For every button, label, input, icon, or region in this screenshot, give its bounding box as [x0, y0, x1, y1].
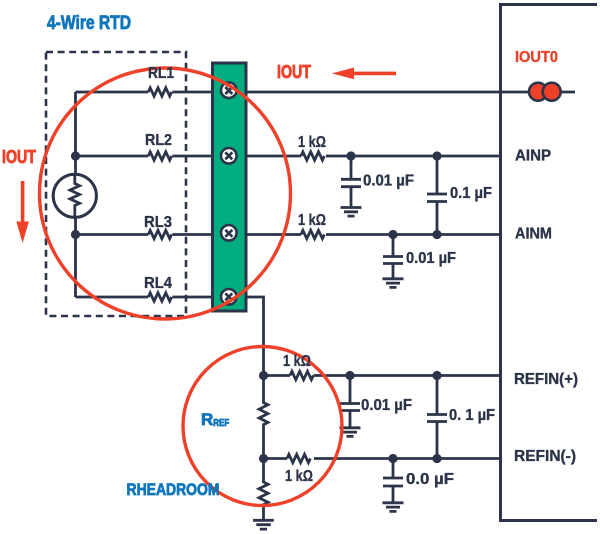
svg-text:RL4: RL4 [144, 275, 172, 292]
terminal block (green) [213, 63, 247, 311]
label RREF [201, 410, 230, 429]
svg-text:0.1 µF: 0.1 µF [450, 185, 492, 202]
node REFIN(-) left junction [259, 454, 268, 463]
label 0.0uF REFIN- [406, 471, 454, 488]
svg-text:0.01 µF: 0.01 µF [406, 250, 456, 267]
terminal 1 (screw) [221, 82, 237, 98]
svg-text:1 kΩ: 1 kΩ [283, 353, 311, 370]
label 1 kOhm row5 [283, 353, 311, 370]
label 1 kOhm row2 [298, 134, 326, 151]
node AINP cap junction [346, 151, 355, 160]
label RL3 [144, 214, 172, 231]
capacitor 0.1uF between AINP/AINM [427, 156, 447, 235]
capacitor 0.01uF on AINM [383, 235, 403, 279]
node AINM 0.1uF junction [432, 230, 441, 239]
node REFIN(-) cap junction [388, 454, 397, 463]
label RL2 [145, 132, 172, 149]
svg-text:0.01 µF: 0.01 µF [363, 173, 414, 190]
svg-text:IOUT: IOUT [277, 62, 311, 82]
label 1 kOhm row3 [298, 212, 326, 229]
resistor RL1 [148, 88, 171, 96]
ground below RHEADROOM [253, 520, 274, 529]
wire row3 AINM [76, 233, 501, 236]
4-wire RTD dashed boundary box [46, 52, 186, 316]
svg-text:0.0 µF: 0.0 µF [406, 471, 454, 488]
ground below REFIN(+) cap [340, 428, 361, 437]
svg-text:RL2: RL2 [145, 132, 172, 149]
svg-text:AINP: AINP [515, 148, 551, 165]
svg-text:0. 1 µF: 0. 1 µF [449, 407, 495, 424]
node RL2/RTD junction [71, 151, 80, 160]
wire left bus (RTD loop vertical) [74, 92, 77, 297]
node AINP 0.1uF junction [432, 151, 441, 160]
pin label REFIN(+) [514, 371, 578, 388]
wire row4 RL4 [76, 296, 238, 299]
ground below AINM cap [383, 279, 404, 288]
IOUT arrow (left, pointing down) [16, 181, 29, 243]
red highlight circle around RTD loop [40, 68, 291, 319]
node REFIN(+) left junction [259, 371, 268, 380]
label 0.1uF REFIN [449, 407, 495, 424]
svg-text:4-Wire RTD: 4-Wire RTD [47, 13, 131, 34]
resistor RL4 [148, 293, 171, 301]
capacitor 0.01uF on AINP [341, 156, 361, 207]
resistor 1k ohm row5 [290, 371, 313, 379]
IOUT arrow (top, pointing left) [332, 68, 396, 80]
wire row5 REFIN(+) [264, 374, 501, 377]
IOUT0 pin dual red circles [529, 83, 561, 101]
capacitor 0.0uF on REFIN(-) [383, 459, 403, 503]
resistor RL3 [148, 230, 171, 238]
pin label AINP [515, 148, 551, 165]
pin label REFIN(-) [514, 448, 576, 465]
svg-text:REFIN(-): REFIN(-) [514, 448, 576, 465]
ground below REFIN(-) cap [383, 503, 404, 512]
node REFIN(+) 0.1uF junction [432, 371, 441, 380]
node REFIN(+) cap junction [345, 371, 354, 380]
svg-text:RL1: RL1 [148, 65, 174, 82]
resistor RHEADROOM (vertical) [259, 459, 268, 521]
svg-text:RL3: RL3 [144, 214, 172, 231]
label RL1 [148, 65, 174, 82]
label IOUT (left) [2, 147, 36, 167]
RTD element (circle with zigzag) [53, 174, 96, 218]
svg-text:AINM: AINM [515, 226, 552, 243]
label IOUT (top) [277, 62, 311, 82]
label 4-Wire RTD [47, 13, 131, 34]
label 0.01uF AINM [406, 250, 456, 267]
svg-text:IOUT0: IOUT0 [515, 49, 558, 66]
wire row6 REFIN(-) [264, 457, 501, 460]
label RL4 [144, 275, 172, 292]
node REFIN(-) 0.1uF junction [432, 454, 441, 463]
resistor 1k ohm row2 [301, 152, 324, 160]
resistor RL2 [148, 152, 171, 160]
wire terminal4 to REFIN network [237, 297, 264, 376]
resistor 1k ohm row6 [287, 454, 310, 462]
red highlight circle around RREF [183, 347, 342, 506]
label 0.1uF AIN [450, 185, 492, 202]
label 1 kOhm row6 [285, 468, 313, 485]
pin label AINM [515, 226, 552, 243]
terminal 2 (screw) [221, 148, 237, 164]
svg-text:IOUT: IOUT [2, 147, 36, 167]
svg-text:1 kΩ: 1 kΩ [285, 468, 313, 485]
svg-text:RHEADROOM: RHEADROOM [127, 480, 220, 499]
label 0.01uF AINP [363, 173, 414, 190]
wire row1 IOUT (RL1 to IOUT0 pin) [76, 91, 576, 94]
svg-text:1 kΩ: 1 kΩ [298, 134, 326, 151]
svg-text:1 kΩ: 1 kΩ [298, 212, 326, 229]
capacitor 0.01uF on REFIN(+) [340, 376, 360, 428]
label RHEADROOM [127, 480, 220, 499]
node RL3/RTD junction [71, 230, 80, 239]
ground below AINP cap [341, 208, 362, 217]
ADC IC outline [501, 5, 598, 521]
wire row2 AINP [76, 155, 501, 158]
terminal 3 (screw) [221, 225, 237, 241]
node AINM cap junction [388, 230, 397, 239]
pin label IOUT0 [515, 49, 558, 66]
resistor 1k ohm row3 [301, 230, 324, 238]
svg-text:0.01 µF: 0.01 µF [361, 397, 412, 414]
capacitor 0.1uF between REFIN(+)/REFIN(-) [427, 376, 447, 459]
resistor RREF (vertical) [259, 376, 268, 459]
terminal 4 (screw) [221, 289, 237, 305]
label 0.01uF REFIN+ [361, 397, 412, 414]
svg-text:REFIN(+): REFIN(+) [514, 371, 578, 388]
